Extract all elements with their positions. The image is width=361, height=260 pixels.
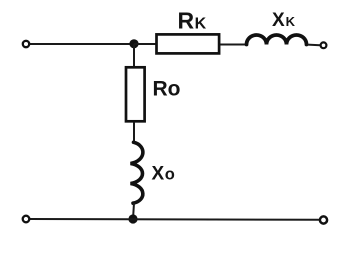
resistor Ro <box>126 67 145 121</box>
wire top-left horizontal <box>30 43 134 45</box>
svg-text:Xo: Xo <box>152 163 175 184</box>
terminal top-right <box>321 42 327 48</box>
wire junction to Rk <box>134 43 157 45</box>
terminal top-left <box>23 41 29 47</box>
node junction bottom <box>128 214 137 223</box>
terminal bottom-left <box>23 216 30 223</box>
resistor Rk <box>157 34 220 53</box>
wire bottom horizontal <box>30 218 320 221</box>
wire Ro to Xo <box>133 122 135 143</box>
node junction top <box>129 39 138 48</box>
wire Xk to right terminal <box>308 44 321 47</box>
svg-text:XK: XK <box>272 10 296 31</box>
svg-text:Ro: Ro <box>153 77 181 100</box>
svg-text:RK: RK <box>178 8 207 34</box>
inductor Xk <box>247 35 307 44</box>
wire junction to Ro <box>133 44 135 67</box>
wire Rk to Xk <box>220 44 246 46</box>
wire Xo to bottom junction <box>133 203 134 219</box>
inductor Xo <box>131 142 143 203</box>
terminal bottom-right <box>320 216 327 223</box>
